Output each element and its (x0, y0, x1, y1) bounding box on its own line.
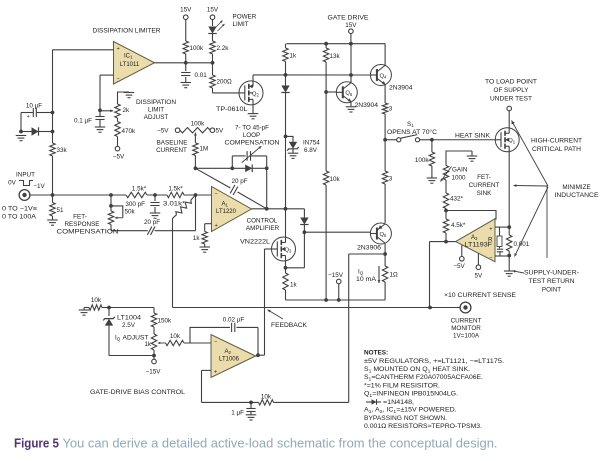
svg-text:470k: 470k (122, 128, 137, 135)
svg-text:LT1006: LT1006 (219, 357, 240, 363)
svg-text:−5V: −5V (113, 154, 125, 161)
svg-text:100k: 100k (415, 157, 430, 164)
svg-text:5V: 5V (475, 273, 484, 280)
svg-text:MONITOR: MONITOR (451, 325, 481, 332)
svg-text:Q4: Q4 (380, 73, 388, 79)
svg-text:R: R (488, 236, 493, 243)
svg-text:−5V: −5V (157, 128, 169, 135)
svg-text:COMPENSATION: COMPENSATION (57, 229, 120, 236)
svg-text:1V=100A: 1V=100A (453, 333, 480, 340)
svg-text:7- TO 45-pF: 7- TO 45-pF (235, 125, 269, 132)
svg-text:1.5k*: 1.5k* (168, 186, 183, 193)
svg-text:UNDER TEST: UNDER TEST (490, 96, 532, 103)
svg-text:5V: 5V (216, 128, 225, 135)
svg-text:POINT: POINT (542, 287, 561, 294)
svg-text:2N3906: 2N3906 (357, 245, 382, 252)
svg-text:COMPENSATION: COMPENSATION (225, 140, 280, 147)
svg-text:−: − (489, 256, 492, 262)
svg-text:2.2k: 2.2k (217, 45, 230, 52)
svg-text:TP-0610L: TP-0610L (216, 106, 248, 113)
svg-text:−: − (214, 191, 217, 197)
svg-text:+: + (214, 369, 217, 375)
svg-text:CONTROL: CONTROL (247, 218, 278, 225)
svg-text:20 pF: 20 pF (231, 178, 247, 185)
svg-text:3: 3 (389, 176, 393, 183)
svg-text:×10 CURRENT SENSE: ×10 CURRENT SENSE (444, 292, 516, 299)
svg-text:300 pF: 300 pF (125, 201, 145, 208)
svg-text:13k: 13k (330, 53, 341, 60)
svg-text:150k: 150k (158, 318, 173, 325)
svg-text:SINK: SINK (477, 190, 492, 197)
svg-text:DISSIPATION: DISSIPATION (136, 99, 176, 106)
svg-text:GATE-DRIVE BIAS CONTROL: GATE-DRIVE BIAS CONTROL (90, 389, 186, 396)
svg-text:−1V: −1V (33, 183, 45, 190)
svg-text:6.8V: 6.8V (304, 147, 318, 154)
svg-text:−: − (116, 76, 119, 82)
svg-text:Figure 5: Figure 5 (14, 437, 59, 451)
svg-text:+: + (489, 227, 492, 233)
svg-text:HIGH-CURRENT: HIGH-CURRENT (531, 138, 582, 145)
svg-text:OPENS AT 70°C: OPENS AT 70°C (387, 128, 437, 136)
svg-text:LIMIT: LIMIT (148, 107, 164, 114)
svg-text:+: + (116, 46, 119, 52)
svg-text:Q3: Q3 (285, 247, 293, 253)
svg-text:100k: 100k (191, 121, 206, 128)
svg-text:LIMIT: LIMIT (233, 21, 249, 28)
svg-text:You can derive a detailed acti: You can derive a detailed active-load sc… (63, 437, 498, 451)
svg-text:TEST RETURN: TEST RETURN (529, 278, 575, 285)
svg-text:TO LOAD POINT: TO LOAD POINT (485, 79, 537, 86)
svg-text:10k: 10k (330, 176, 341, 183)
svg-text:−15V: −15V (146, 369, 162, 376)
svg-text:0.02 µF: 0.02 µF (223, 317, 245, 324)
svg-text:SUPPLY-UNDER-: SUPPLY-UNDER- (524, 270, 579, 277)
svg-text:10 mA: 10 mA (356, 276, 377, 283)
svg-text:=1N4148,: =1N4148, (383, 399, 414, 406)
svg-text:0 TO 100A: 0 TO 100A (2, 214, 37, 221)
svg-text:POWER: POWER (233, 14, 257, 21)
svg-text:A1: A1 (222, 202, 229, 208)
svg-text:1k: 1k (144, 341, 152, 348)
svg-text:LT1004: LT1004 (117, 315, 142, 322)
svg-text:LT1011: LT1011 (120, 62, 140, 68)
svg-text:BYPASSING NOT SHOWN.: BYPASSING NOT SHOWN. (364, 415, 447, 422)
svg-text:Q5: Q5 (380, 232, 388, 238)
svg-text:Q2: Q2 (252, 91, 260, 97)
svg-text:NOTES:: NOTES: (364, 350, 388, 357)
svg-text:INPUT: INPUT (16, 172, 35, 179)
svg-text:ADJUST: ADJUST (144, 114, 169, 121)
svg-text:RESPONSE: RESPONSE (65, 221, 100, 228)
svg-text:20 pF: 20 pF (144, 219, 160, 226)
svg-text:3.01k*: 3.01k* (163, 201, 186, 208)
svg-text:1k: 1k (290, 282, 298, 289)
svg-text:CURRENT: CURRENT (451, 318, 482, 325)
svg-text:1000: 1000 (452, 175, 467, 182)
svg-text:Q1: Q1 (508, 138, 516, 144)
svg-text:15V: 15V (180, 7, 192, 14)
svg-text:2.5V: 2.5V (122, 322, 136, 329)
svg-text:1k: 1k (193, 235, 201, 242)
svg-text:1.5k*: 1.5k* (132, 186, 147, 193)
svg-text:1k: 1k (290, 53, 298, 60)
svg-text:DISSIPATION LIMITER: DISSIPATION LIMITER (93, 28, 161, 35)
svg-text:50k: 50k (125, 209, 136, 216)
svg-text:FET-: FET- (477, 174, 491, 181)
svg-text:−: − (214, 339, 217, 345)
svg-text:GAIN: GAIN (452, 167, 468, 174)
svg-text:S1​ MOUNTED ON Q1​ HEAT SINK.: S1​ MOUNTED ON Q1​ HEAT SINK. (364, 366, 470, 373)
svg-text:10k: 10k (170, 333, 181, 340)
svg-text:FEEDBACK: FEEDBACK (271, 322, 308, 329)
svg-text:*=1% FILM RESISITOR.: *=1% FILM RESISITOR. (364, 382, 440, 389)
svg-text:±5V REGULATORS, +=LT1121, −=LT: ±5V REGULATORS, +=LT1121, −=LT1175. (364, 358, 504, 365)
svg-text:10 µF: 10 µF (26, 103, 42, 110)
svg-text:−15V: −15V (328, 272, 344, 279)
svg-text:IC1: IC1 (124, 54, 133, 60)
svg-text:10k: 10k (261, 394, 272, 401)
svg-text:2N3904: 2N3904 (355, 102, 379, 109)
svg-text:+: + (27, 114, 30, 120)
svg-text:0.1 µF: 0.1 µF (74, 118, 92, 125)
svg-text:GATE DRIVE: GATE DRIVE (328, 15, 369, 22)
svg-text:CRITICAL PATH: CRITICAL PATH (532, 146, 581, 153)
svg-text:33k: 33k (57, 147, 68, 154)
svg-text:BASELINE: BASELINE (157, 140, 188, 147)
svg-text:MINIMIZE: MINIMIZE (562, 184, 590, 191)
svg-text:1M: 1M (200, 146, 209, 153)
svg-text:0V: 0V (8, 180, 17, 187)
svg-text:−5V: −5V (453, 263, 465, 270)
svg-text:10k: 10k (91, 297, 102, 304)
svg-text:A3: A3 (471, 235, 478, 241)
svg-text:HEAT SINK: HEAT SINK (455, 133, 491, 140)
svg-text:3: 3 (389, 106, 393, 113)
svg-text:CURRENT: CURRENT (469, 182, 500, 189)
svg-text:OF SUPPLY: OF SUPPLY (494, 87, 530, 94)
svg-text:100k: 100k (190, 45, 205, 52)
svg-text:1 µF: 1 µF (231, 410, 244, 417)
svg-text:0 TO −1V≡: 0 TO −1V≡ (2, 206, 37, 213)
svg-text:+: + (214, 223, 217, 229)
svg-text:Q1​=INFINEON IPB015N04LG.: Q1​=INFINEON IPB015N04LG. (364, 390, 458, 397)
svg-text:0.01: 0.01 (195, 72, 208, 79)
svg-text:S1​=CANTHERM F20A07005ACFA06E.: S1​=CANTHERM F20A07005ACFA06E. (364, 374, 483, 381)
svg-text:15V: 15V (345, 22, 357, 29)
svg-text:IN754: IN754 (303, 140, 320, 147)
svg-text:LT1220: LT1220 (216, 209, 237, 215)
svg-text:FET-: FET- (73, 214, 87, 221)
svg-text:1Ω: 1Ω (390, 272, 399, 279)
svg-text:VN2222L: VN2222L (240, 239, 271, 246)
svg-text:A1​, A2​, IC1​=±15V POWERED.: A1​, A2​, IC1​=±15V POWERED. (364, 407, 457, 414)
svg-text:0.001Ω RESISTORS≈TEPRO-TPSM3.: 0.001Ω RESISTORS≈TEPRO-TPSM3. (364, 423, 482, 430)
svg-text:LOOP: LOOP (243, 132, 261, 139)
svg-text:2N3904: 2N3904 (389, 85, 413, 92)
svg-text:CURRENT: CURRENT (156, 147, 187, 154)
svg-text:432*: 432* (450, 196, 464, 203)
svg-text:AMPLIFIER: AMPLIFIER (246, 225, 280, 232)
svg-text:INDUCTANCE: INDUCTANCE (555, 192, 599, 199)
svg-text:51: 51 (57, 207, 65, 214)
svg-text:2k: 2k (123, 107, 131, 114)
svg-text:4.5k*: 4.5k* (451, 222, 466, 229)
svg-text:200Ω: 200Ω (217, 79, 233, 86)
svg-text:Q6: Q6 (345, 91, 353, 97)
svg-text:A2: A2 (225, 349, 232, 355)
svg-text:15V: 15V (207, 7, 219, 14)
